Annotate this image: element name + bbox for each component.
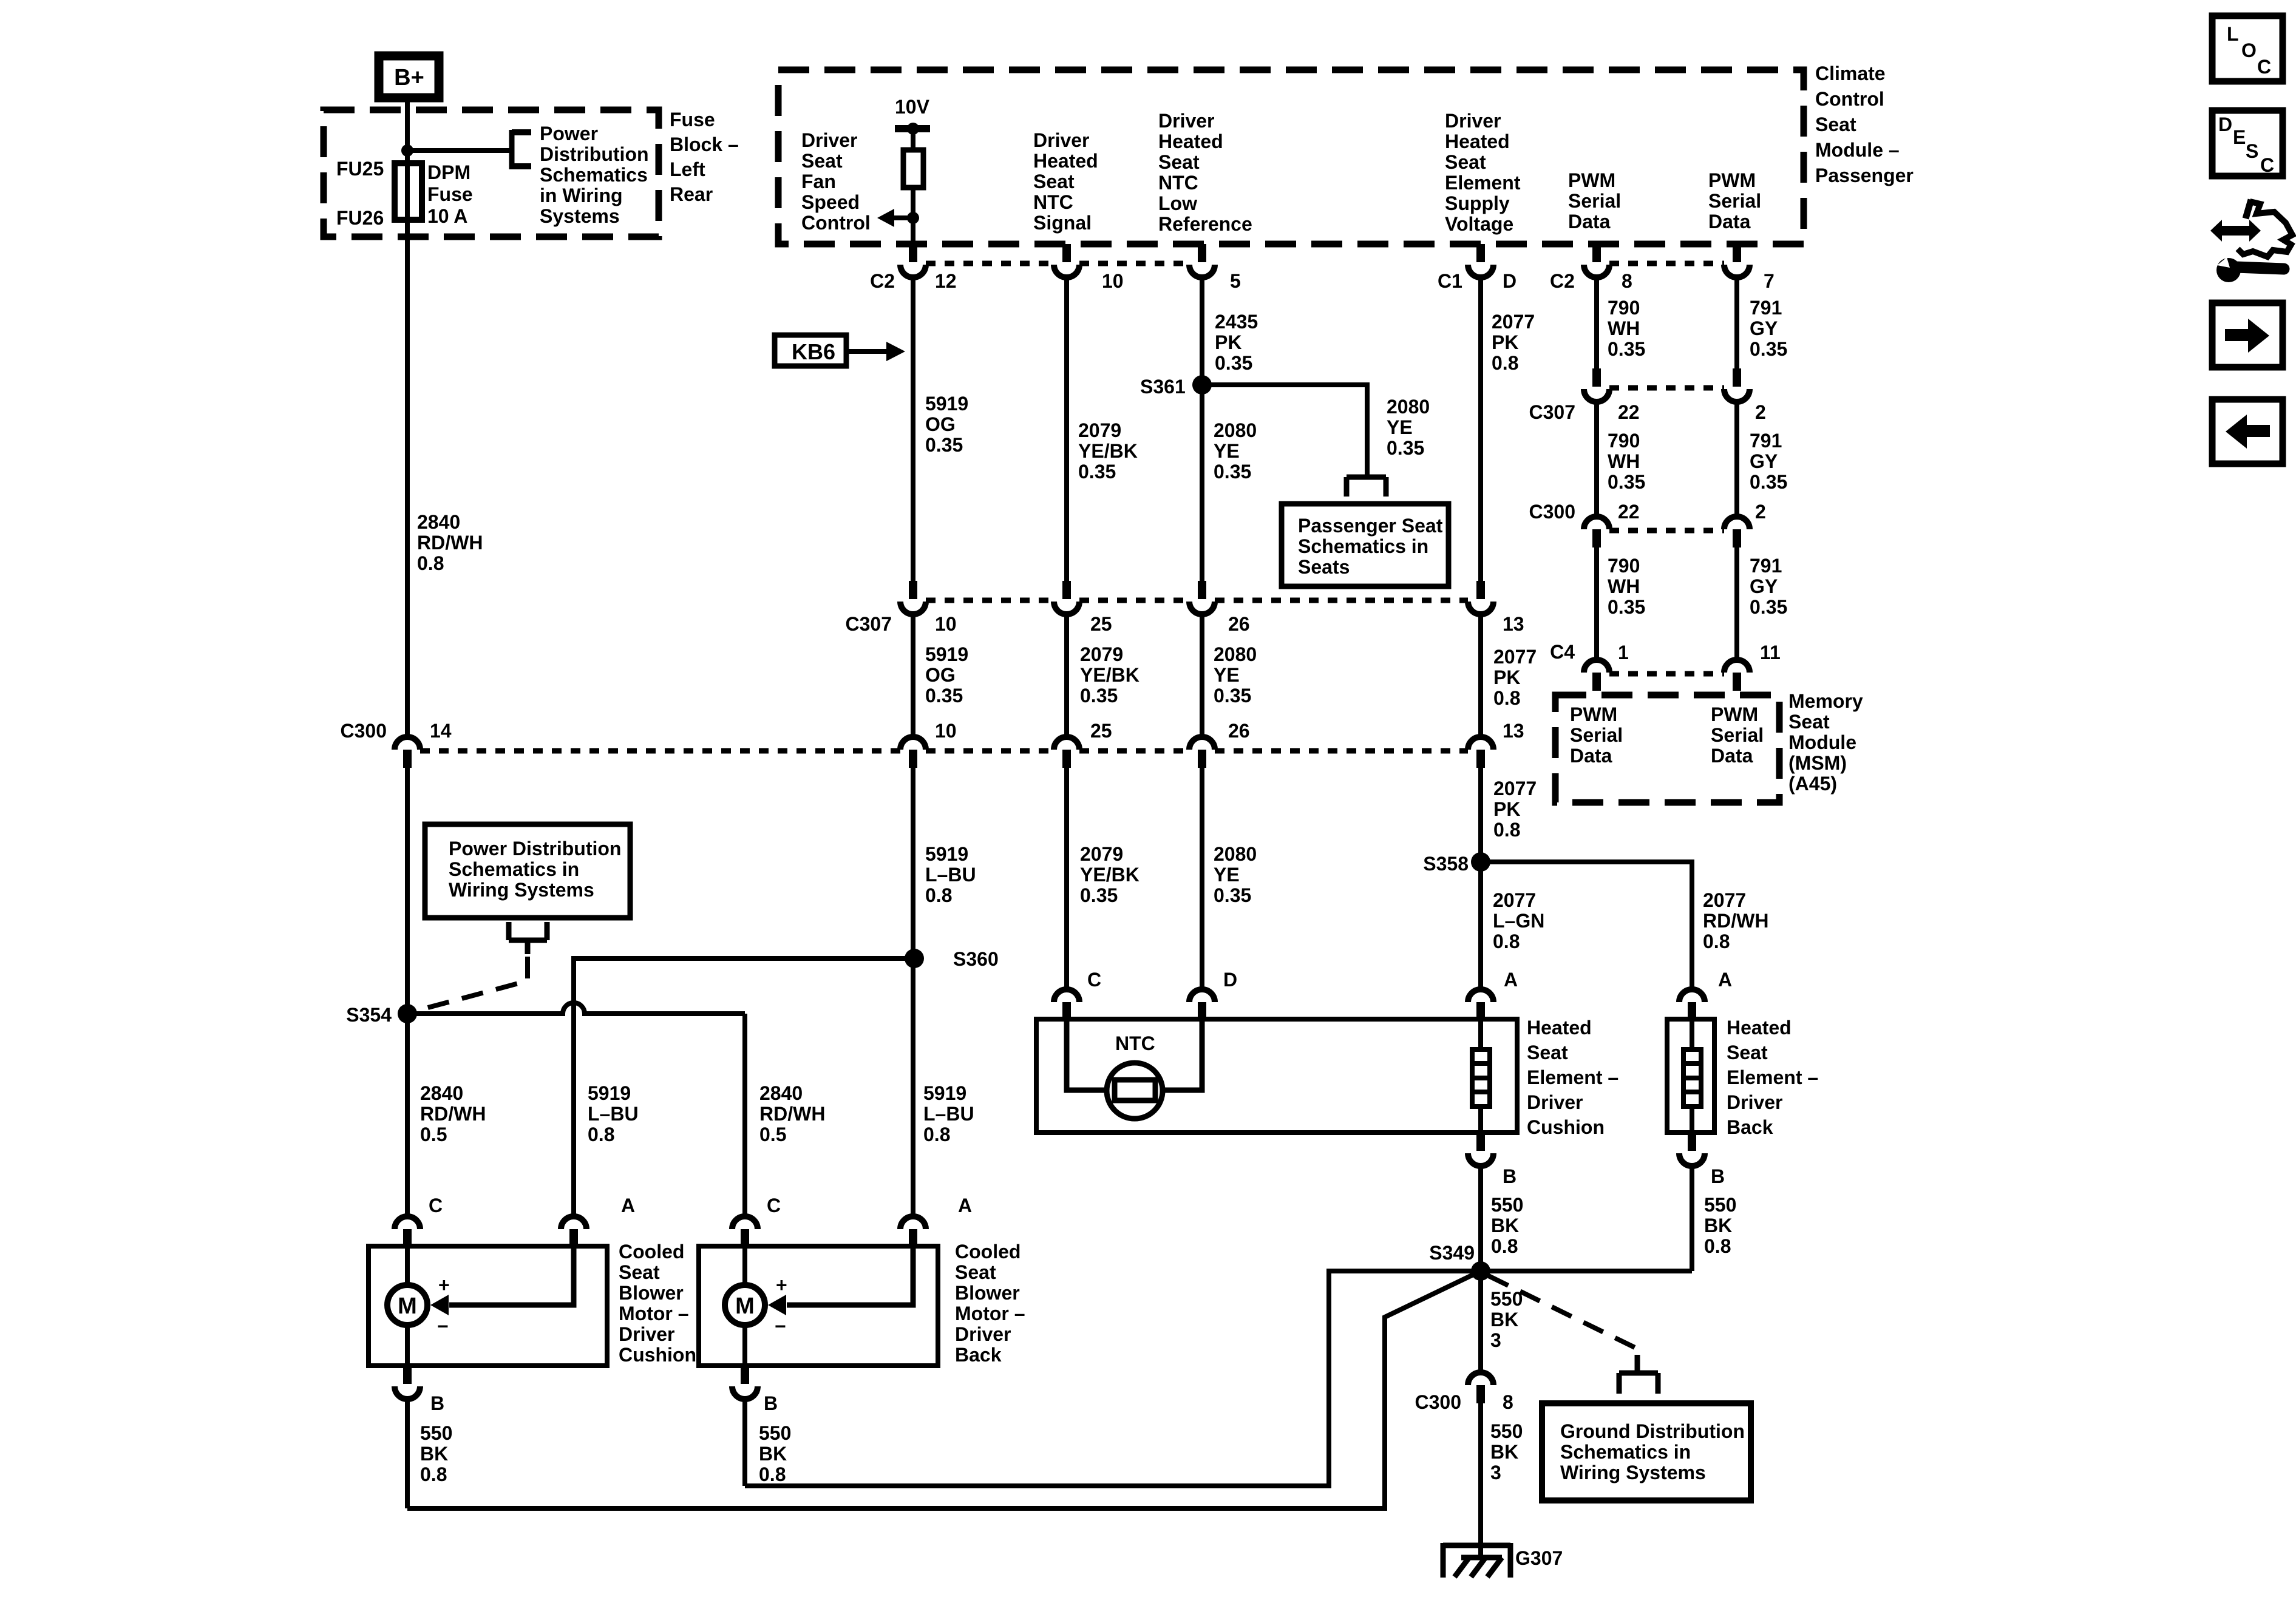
- svg-text:A: A: [958, 1195, 972, 1216]
- svg-text:S358: S358: [1423, 853, 1469, 875]
- callout box - Passenger Seat Schematics in Seats: [1282, 504, 1449, 586]
- pin label A (motor1): [621, 1195, 635, 1216]
- svg-text:Climate: Climate: [1815, 63, 1886, 84]
- wire - motor2 internal bottom: [742, 1324, 747, 1366]
- svg-text:2077: 2077: [1492, 311, 1535, 333]
- svg-text:0.8: 0.8: [1491, 1235, 1518, 1257]
- label - C307 (PWM): [1529, 401, 1576, 423]
- svg-text:10: 10: [1102, 270, 1124, 292]
- svg-text:C2: C2: [870, 270, 895, 292]
- svg-text:YE: YE: [1214, 664, 1240, 686]
- fuse block dashed box (Fuse Block - Left Rear): [324, 110, 659, 237]
- label - motor2 minus: [775, 1315, 786, 1337]
- wire - motor2 A internal with arrow: [768, 1246, 913, 1315]
- pin label 8: [1622, 270, 1632, 292]
- wire - S349 diagonal branch to motor1 pin B: [407, 1271, 1481, 1508]
- label - Cooled Seat Blower Motor - Driver Cushion: [619, 1241, 696, 1366]
- svg-text:2840: 2840: [759, 1082, 803, 1104]
- svg-text:Seat: Seat: [1527, 1042, 1568, 1063]
- svg-text:RD/WH: RD/WH: [420, 1103, 486, 1125]
- label - motor2 plus: [776, 1274, 787, 1296]
- svg-text:550: 550: [759, 1422, 791, 1444]
- svg-text:Back: Back: [1727, 1116, 1773, 1138]
- connector clip - module C2 pin 10: [1054, 244, 1079, 277]
- svg-text:(MSM): (MSM): [1788, 752, 1847, 774]
- svg-text:Driver: Driver: [619, 1323, 675, 1345]
- svg-text:14: 14: [430, 720, 452, 742]
- svg-text:YE: YE: [1387, 416, 1413, 438]
- svg-text:BK: BK: [1704, 1215, 1732, 1236]
- pin label C (motor2): [767, 1195, 781, 1216]
- svg-text:790: 790: [1608, 297, 1640, 319]
- label - FU25: [336, 158, 384, 180]
- svg-text:DPM: DPM: [427, 161, 470, 183]
- svg-text:Schematics in: Schematics in: [1560, 1441, 1691, 1463]
- connector clip - C307 pin 13: [1468, 581, 1493, 614]
- svg-text:PK: PK: [1493, 666, 1520, 688]
- svg-text:YE: YE: [1214, 864, 1240, 886]
- svg-text:WH: WH: [1608, 450, 1640, 472]
- label - wire 2080 YE 0.35 (branch): [1387, 396, 1430, 459]
- svg-text:2080: 2080: [1214, 643, 1257, 665]
- svg-text:0.35: 0.35: [1214, 685, 1251, 707]
- svg-text:8: 8: [1622, 270, 1632, 292]
- svg-text:0.8: 0.8: [1704, 1235, 1731, 1257]
- connector dotted link C300 main row: [420, 748, 1468, 754]
- svg-text:2079: 2079: [1080, 843, 1123, 865]
- connector clip - heated element back pin A: [1679, 989, 1705, 1020]
- svg-text:13: 13: [1503, 613, 1524, 635]
- svg-text:+: +: [776, 1274, 787, 1296]
- svg-text:Schematics in: Schematics in: [449, 858, 579, 880]
- reference bracket - ground distribution: [1619, 1355, 1658, 1394]
- svg-text:26: 26: [1228, 720, 1250, 742]
- svg-text:5919: 5919: [588, 1082, 631, 1104]
- svg-text:+: +: [438, 1274, 450, 1296]
- pin label 25 (C300): [1090, 720, 1112, 742]
- svg-text:Low: Low: [1158, 192, 1197, 214]
- svg-text:S354: S354: [346, 1004, 392, 1026]
- svg-text:B: B: [1711, 1165, 1725, 1187]
- label - wire 5919 L-BU 0.8 (motor2): [923, 1082, 974, 1145]
- svg-text:E: E: [2233, 126, 2246, 148]
- label - wire 2840 RD/WH 0.5 (motor2): [759, 1082, 825, 1145]
- svg-text:Seat: Seat: [1727, 1042, 1768, 1063]
- svg-text:C300: C300: [341, 720, 387, 742]
- svg-text:GY: GY: [1750, 317, 1778, 339]
- svg-text:C2: C2: [1550, 270, 1575, 292]
- svg-text:BK: BK: [759, 1443, 787, 1465]
- connector clip - NTC pin C: [1054, 989, 1079, 1020]
- label - Driver Heated Seat Element Supply Voltage: [1445, 110, 1521, 235]
- svg-text:Serial: Serial: [1570, 724, 1623, 746]
- wire - 2077 PK (C307 to C300): [1478, 614, 1483, 737]
- svg-text:0.35: 0.35: [1214, 884, 1251, 906]
- node - splice S360: [905, 949, 924, 968]
- svg-text:Data: Data: [1711, 745, 1753, 767]
- svg-text:Seat: Seat: [1033, 171, 1075, 192]
- svg-text:Element –: Element –: [1527, 1066, 1618, 1088]
- connector clip - blower motor 2 pin B: [732, 1366, 758, 1399]
- svg-text:Module: Module: [1788, 731, 1856, 753]
- label - wire 2077 L-GN 0.8: [1493, 889, 1544, 952]
- svg-text:WH: WH: [1608, 317, 1640, 339]
- svg-text:0.35: 0.35: [1080, 884, 1118, 906]
- label - PWM Serial Data (MSM left): [1570, 703, 1623, 767]
- wire - 2435 PK (pin 5 to S361): [1200, 280, 1204, 385]
- connector clip - module C1 pin D: [1468, 244, 1493, 277]
- svg-text:Control: Control: [1815, 88, 1884, 110]
- label - Cooled Seat Blower Motor - Driver Back: [955, 1241, 1025, 1366]
- component box - cooled seat blower motor driver back: [699, 1246, 938, 1366]
- svg-text:0.8: 0.8: [925, 884, 952, 906]
- svg-text:550: 550: [1490, 1420, 1523, 1442]
- connector clip - C300 pin 10: [900, 737, 926, 768]
- wire - 791 GY (C300 to C4): [1734, 547, 1739, 660]
- pin label B (motor2): [764, 1392, 778, 1414]
- svg-text:0.8: 0.8: [1703, 931, 1730, 952]
- svg-text:BK: BK: [1491, 1215, 1519, 1236]
- label - Memory Seat Module (MSM) (A45): [1788, 690, 1863, 795]
- wire - 2840 RD/WH from fuse to C300: [405, 220, 410, 737]
- label - wire 550 BK 0.8 (motor1): [420, 1422, 452, 1485]
- svg-text:Driver: Driver: [801, 129, 858, 151]
- heating element - driver cushion: [1472, 1049, 1490, 1107]
- pin label 10 (C307): [935, 613, 957, 635]
- svg-text:C1: C1: [1438, 270, 1462, 292]
- svg-text:Voltage: Voltage: [1445, 213, 1513, 235]
- 10V supply rail with node: [895, 123, 930, 135]
- svg-text:−: −: [437, 1315, 449, 1337]
- label - Heated Seat Element - Driver Back: [1727, 1017, 1818, 1138]
- label - FU26: [336, 207, 384, 229]
- pin label A (element cushion): [1504, 969, 1518, 991]
- pin label 2 (C300): [1755, 501, 1766, 523]
- connector clip - element cushion pin B: [1468, 1133, 1493, 1166]
- svg-text:D: D: [1503, 270, 1517, 292]
- svg-text:Data: Data: [1570, 745, 1612, 767]
- icon box - arrow right: [2212, 303, 2283, 367]
- label - wire 791 GY 0.35 (seg3): [1750, 555, 1787, 618]
- svg-text:Control: Control: [801, 212, 871, 234]
- label - wire 5919 L-BU 0.8: [925, 843, 976, 906]
- svg-text:FU25: FU25: [336, 158, 384, 180]
- svg-text:C: C: [429, 1195, 443, 1216]
- svg-text:0.8: 0.8: [1492, 352, 1518, 374]
- svg-text:Fuse: Fuse: [427, 183, 473, 205]
- connector clip - heated element cushion pin A: [1468, 989, 1493, 1020]
- svg-text:2077: 2077: [1493, 778, 1537, 799]
- svg-text:2: 2: [1755, 401, 1766, 423]
- svg-text:C: C: [1087, 969, 1101, 991]
- svg-text:L: L: [2227, 23, 2239, 45]
- connector clip - C300 pin 8: [1468, 1372, 1493, 1403]
- arrow - driver seat fan speed control output: [877, 209, 913, 227]
- svg-text:RD/WH: RD/WH: [1703, 910, 1768, 932]
- connector dotted link C307 (22-2): [1609, 385, 1724, 391]
- node - junction dot above fuse FU25: [401, 144, 413, 157]
- pin label 2 (C307): [1755, 401, 1766, 423]
- svg-text:Heated: Heated: [1727, 1017, 1792, 1039]
- svg-text:Memory: Memory: [1788, 690, 1863, 712]
- svg-text:B: B: [764, 1392, 778, 1414]
- pin label 11: [1760, 642, 1781, 663]
- svg-text:Speed: Speed: [801, 191, 860, 213]
- connector clip - C307 pin 10: [900, 581, 926, 614]
- svg-text:Seat: Seat: [955, 1261, 996, 1283]
- svg-text:Driver: Driver: [1527, 1091, 1583, 1113]
- wire - 791 GY (pin 7 to C307): [1734, 280, 1739, 368]
- svg-text:0.35: 0.35: [1214, 461, 1251, 483]
- svg-text:D: D: [2218, 114, 2232, 135]
- label - wire 550 BK 0.8 (back): [1704, 1194, 1736, 1257]
- svg-text:7: 7: [1764, 270, 1775, 292]
- icon - adjust/swap (double arrow, outline, wrench): [2210, 200, 2292, 282]
- wire - motor2 B to ground run: [742, 1399, 747, 1486]
- label - S361: [1140, 376, 1186, 398]
- svg-text:5919: 5919: [923, 1082, 966, 1104]
- svg-text:5919: 5919: [925, 393, 968, 415]
- label - wire 550 BK 3 (lower): [1490, 1420, 1523, 1483]
- svg-text:B: B: [1503, 1165, 1517, 1187]
- pin label B (element cushion): [1503, 1165, 1517, 1187]
- wire - 550 BK 3 (C300-8 to G307): [1478, 1403, 1483, 1558]
- svg-text:0.35: 0.35: [925, 434, 963, 456]
- svg-text:0.35: 0.35: [1750, 471, 1787, 493]
- svg-text:Fuse: Fuse: [670, 109, 715, 131]
- wire - motor1 A internal with arrow: [430, 1246, 574, 1315]
- svg-text:OG: OG: [925, 664, 956, 686]
- wire - 2080 YE (S361 to C307): [1200, 385, 1204, 581]
- wire - motor1 C internal: [405, 1246, 410, 1286]
- connector dotted link C300 (22-2): [1609, 528, 1724, 534]
- wire - 550 BK element cushion to S349: [1478, 1166, 1483, 1271]
- label - wire 2079 YE/BK 0.35 (mid): [1080, 643, 1140, 707]
- svg-text:S349: S349: [1429, 1242, 1475, 1264]
- svg-text:25: 25: [1090, 720, 1112, 742]
- svg-text:791: 791: [1750, 430, 1782, 452]
- svg-text:Driver: Driver: [1158, 110, 1215, 132]
- svg-text:Fan: Fan: [801, 171, 836, 192]
- connector dotted link C2 row (8-7): [1609, 261, 1724, 266]
- connector clip - module C2 pin 12: [900, 244, 926, 277]
- svg-text:10: 10: [935, 720, 957, 742]
- connector clip - blower motor 1 pin B: [395, 1366, 420, 1399]
- svg-text:0.35: 0.35: [1080, 685, 1118, 707]
- svg-text:PWM: PWM: [1711, 703, 1758, 725]
- label - wire 2077 PK 0.8 (low): [1493, 778, 1537, 841]
- wire - 2077 PK (pin D to C307): [1478, 280, 1483, 581]
- svg-text:G307: G307: [1515, 1547, 1563, 1569]
- module box - Climate Control Seat Module - Passenger (dashed): [778, 70, 1804, 244]
- svg-text:0.8: 0.8: [1493, 819, 1520, 841]
- component box - seat cushion assembly (NTC + heated element): [1036, 1019, 1517, 1133]
- svg-text:0.8: 0.8: [1493, 931, 1520, 952]
- svg-text:2079: 2079: [1080, 643, 1123, 665]
- reference bracket - passenger seat schematics: [1347, 477, 1386, 497]
- svg-text:2435: 2435: [1215, 311, 1258, 333]
- thermistor - NTC sensor: [1107, 1063, 1163, 1119]
- motor M2 symbol: [725, 1285, 765, 1325]
- svg-text:PK: PK: [1492, 331, 1518, 353]
- wire - 5919 branch S360 to motor1 pin A: [574, 958, 914, 1216]
- connector clip - C300 pin 13: [1468, 737, 1493, 768]
- label - wire 791 GY 0.35 (seg2): [1750, 430, 1787, 493]
- connector clip - C300 pin 14: [395, 737, 420, 768]
- pin label D: [1503, 270, 1517, 292]
- label - C300 (main): [341, 720, 387, 742]
- wire - 5919 L-BU (C300 to S360 to motor2 pin A): [911, 768, 915, 1216]
- pin label 26 (C300): [1228, 720, 1250, 742]
- svg-text:C: C: [2260, 154, 2274, 176]
- svg-text:Back: Back: [955, 1344, 1002, 1366]
- label - wire 2840 RD/WH 0.8: [417, 511, 483, 574]
- label - wire 2435 PK 0.35: [1215, 311, 1258, 374]
- svg-text:Schematics in: Schematics in: [1298, 535, 1428, 557]
- label - DPM Fuse 10 A: [427, 161, 473, 227]
- connector clip - C307 pin 25: [1054, 581, 1079, 614]
- wire - resistor to output node: [911, 188, 915, 243]
- svg-text:B: B: [430, 1392, 444, 1414]
- svg-text:10: 10: [935, 613, 957, 635]
- svg-text:Serial: Serial: [1568, 190, 1621, 212]
- svg-text:Cushion: Cushion: [619, 1344, 696, 1366]
- label - C2 (right): [1550, 270, 1575, 292]
- svg-text:C307: C307: [846, 613, 892, 635]
- svg-text:Heated: Heated: [1033, 150, 1098, 172]
- label - wire 2080 YE 0.35 (below S361): [1214, 419, 1257, 483]
- label - wire 2079 YE/BK 0.35 (low): [1080, 843, 1140, 906]
- svg-text:BK: BK: [1490, 1441, 1518, 1463]
- connector clip - C4 pin 11: [1724, 660, 1750, 691]
- pin label C (NTC): [1087, 969, 1101, 991]
- pin label 1: [1618, 642, 1629, 663]
- svg-text:S: S: [2246, 140, 2258, 162]
- svg-text:RD/WH: RD/WH: [417, 532, 483, 554]
- svg-text:0.8: 0.8: [759, 1463, 786, 1485]
- label - wire 791 GY 0.35 (seg1): [1750, 297, 1787, 360]
- svg-text:26: 26: [1228, 613, 1250, 635]
- label - wire 2077 PK 0.8 (upper): [1492, 311, 1535, 374]
- reference bracket - power distribution (lower): [509, 922, 547, 954]
- svg-text:0.35: 0.35: [1608, 338, 1645, 360]
- svg-text:Cooled: Cooled: [955, 1241, 1021, 1263]
- svg-text:Schematics: Schematics: [540, 164, 648, 186]
- svg-text:0.8: 0.8: [588, 1124, 614, 1145]
- pin label 22 (C307): [1618, 401, 1640, 423]
- svg-text:Seat: Seat: [1788, 711, 1830, 733]
- svg-text:BK: BK: [1490, 1309, 1518, 1331]
- svg-text:0.8: 0.8: [417, 552, 444, 574]
- pin label A (element back): [1718, 969, 1732, 991]
- svg-text:0.35: 0.35: [1608, 596, 1645, 618]
- svg-text:in Wiring: in Wiring: [540, 185, 623, 206]
- svg-text:791: 791: [1750, 297, 1782, 319]
- svg-text:Heated: Heated: [1445, 131, 1510, 152]
- pin label 7: [1764, 270, 1775, 292]
- label - wire 2077 PK 0.8 (mid): [1493, 646, 1537, 709]
- label - Fuse Block - Left Rear: [670, 109, 739, 205]
- svg-text:0.35: 0.35: [1215, 352, 1252, 374]
- svg-text:Left: Left: [670, 158, 705, 180]
- svg-text:S361: S361: [1140, 376, 1186, 398]
- svg-text:12: 12: [935, 270, 957, 292]
- connector clip - module C2 pin 8: [1584, 244, 1609, 277]
- wire - 2079 YE/BK (pin 10 to C307): [1064, 280, 1069, 581]
- wire - element back bottom lead: [1690, 1107, 1694, 1133]
- connector clip - NTC pin D: [1189, 989, 1215, 1020]
- icon box - arrow left: [2212, 399, 2283, 464]
- svg-text:2080: 2080: [1387, 396, 1430, 418]
- label - Driver Heated Seat NTC Signal: [1033, 129, 1098, 234]
- pin label 8 (C300): [1503, 1391, 1513, 1413]
- label - Driver Seat Fan Speed Control: [801, 129, 871, 234]
- svg-text:Cooled: Cooled: [619, 1241, 684, 1263]
- wire - element back top lead: [1690, 1019, 1694, 1050]
- svg-text:A: A: [1504, 969, 1518, 991]
- svg-text:1: 1: [1618, 642, 1629, 663]
- svg-text:Seat: Seat: [1815, 114, 1856, 135]
- svg-text:C: C: [767, 1195, 781, 1216]
- pin label D (NTC): [1223, 969, 1237, 991]
- wire - S349 left branch to motor2 pin B: [745, 1271, 1481, 1486]
- svg-text:GY: GY: [1750, 450, 1778, 472]
- svg-text:550: 550: [1490, 1288, 1523, 1310]
- node - fan speed control junction: [907, 212, 919, 224]
- label - Driver Heated Seat NTC Low Reference: [1158, 110, 1252, 235]
- label - wire 2079 YE/BK 0.35: [1078, 419, 1138, 483]
- svg-text:22: 22: [1618, 401, 1640, 423]
- label - wire 5919 OG 0.35 (mid): [925, 643, 968, 707]
- wire - 790 WH (C300 to C4): [1594, 547, 1599, 660]
- pin label 13 (C307): [1503, 613, 1524, 635]
- dashed reference - bracket to S354: [419, 957, 528, 1010]
- motor M1 symbol: [387, 1285, 427, 1325]
- svg-text:22: 22: [1618, 501, 1640, 523]
- svg-text:5: 5: [1230, 270, 1241, 292]
- connector clip - C300 pin 26: [1189, 737, 1215, 768]
- svg-text:0.35: 0.35: [925, 685, 963, 707]
- wire - 2077 L-GN (S358 to element cushion): [1478, 862, 1483, 989]
- pin label 5: [1230, 270, 1241, 292]
- svg-text:Power: Power: [540, 123, 598, 144]
- svg-text:Serial: Serial: [1708, 190, 1761, 212]
- node - splice S349: [1471, 1261, 1490, 1281]
- svg-text:C300: C300: [1529, 501, 1576, 523]
- svg-text:Passenger Seat: Passenger Seat: [1298, 515, 1443, 537]
- wire - 2080 YE (C307 to C300): [1200, 614, 1204, 737]
- connector dotted link C4 (1-11): [1609, 671, 1724, 677]
- svg-text:2840: 2840: [417, 511, 460, 533]
- wire - 2077 PK (C300 to S358): [1478, 768, 1483, 862]
- svg-text:L–BU: L–BU: [588, 1103, 639, 1125]
- svg-text:Heated: Heated: [1158, 131, 1223, 152]
- fuse FU25/FU26 DPM Fuse 10A symbol: [395, 163, 422, 220]
- label - S349: [1429, 1242, 1475, 1264]
- svg-text:(A45): (A45): [1788, 773, 1837, 795]
- svg-text:M: M: [398, 1293, 417, 1319]
- pin label 14 (C300): [430, 720, 452, 742]
- label - wire 2077 RD/WH 0.8: [1703, 889, 1768, 952]
- svg-text:C307: C307: [1529, 401, 1576, 423]
- svg-text:PWM: PWM: [1570, 703, 1617, 725]
- wire - motor1 B to ground run: [405, 1399, 410, 1508]
- label - S354: [346, 1004, 392, 1026]
- svg-text:2077: 2077: [1493, 646, 1537, 668]
- node - splice S361: [1192, 375, 1212, 395]
- svg-text:Heated: Heated: [1527, 1017, 1592, 1039]
- wire - element back to S349: [1481, 1269, 1692, 1273]
